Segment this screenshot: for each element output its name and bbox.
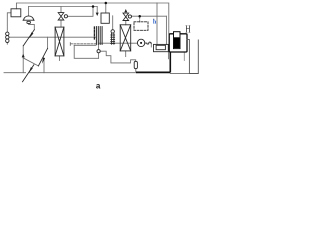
wire tank drain stub xyxy=(183,52,185,60)
wire stub from L1 junction down to box K2 xyxy=(105,3,107,13)
wire stub to bottom line xyxy=(43,59,45,73)
wire main line to burner xyxy=(9,36,96,38)
duct bracket xyxy=(69,43,71,46)
node junction on V2 wire xyxy=(138,15,141,18)
arrow at L2 end xyxy=(96,13,99,16)
wire S1 down to bottom line xyxy=(22,46,24,73)
wire X2 bottom stub xyxy=(125,51,127,57)
heat exchanger box X2 xyxy=(120,25,131,51)
bell dome xyxy=(24,16,34,20)
wire squiggle tail down xyxy=(150,43,152,47)
dashed sensor box xyxy=(134,22,148,31)
source circles chain xyxy=(6,32,9,35)
bell tab xyxy=(27,21,31,23)
valve V2 arrow xyxy=(124,9,127,12)
wire from main line down to S2 xyxy=(47,37,49,48)
wire big box right edge xyxy=(157,3,169,34)
burner jets xyxy=(95,27,97,45)
svg-text:a: a xyxy=(96,81,101,90)
svg-text:H: H xyxy=(185,25,190,36)
burner dashed vertical xyxy=(93,27,95,41)
switch S2 blade xyxy=(38,48,47,66)
wire L2 end arrow stem xyxy=(96,7,98,13)
wire igniter right jog to capsule xyxy=(100,51,136,63)
pedestal box outer xyxy=(154,44,169,51)
wire bottom line mid xyxy=(30,72,137,74)
wire duct corner down xyxy=(74,45,98,58)
wire capsule bottom stub xyxy=(135,69,137,72)
column H xyxy=(189,40,198,74)
wire diagonal to S2 xyxy=(23,58,38,66)
node junction on L2 xyxy=(92,5,95,8)
wire B1 left to source column xyxy=(7,13,11,32)
wire X1 bottom stub xyxy=(58,56,60,61)
valve V1 xyxy=(58,13,64,20)
tank xyxy=(169,34,187,52)
switch S1 blade xyxy=(23,30,34,46)
wire valve V2 bottom stub xyxy=(125,21,127,25)
duct solid top xyxy=(74,44,96,46)
controller box B1 xyxy=(11,9,21,17)
thick pipe bottom xyxy=(136,71,170,73)
wire line to pump xyxy=(99,42,137,44)
box K2 xyxy=(101,13,109,23)
label h icon xyxy=(153,19,157,26)
regulator ladder xyxy=(111,30,114,33)
wire top line L1 xyxy=(16,3,157,9)
wire bell tab to S1 xyxy=(29,24,35,30)
wire big box left edge xyxy=(156,3,158,44)
wire valve V2 to right xyxy=(132,15,167,17)
duct dashed line xyxy=(71,43,97,45)
wire bottom line left xyxy=(4,72,26,74)
pedestal box inner xyxy=(156,45,165,49)
wire line L2 xyxy=(29,6,98,8)
heat exchanger box X1 xyxy=(55,27,64,56)
bell base xyxy=(23,19,34,21)
wire igniter top stub xyxy=(98,45,100,50)
wire V2 line down to pedestal xyxy=(165,16,167,44)
pump circle xyxy=(137,39,144,46)
fuse capsule xyxy=(134,61,137,68)
wire squiggle xyxy=(145,42,152,44)
node junction on L1 xyxy=(105,2,108,5)
wire thin bottom right xyxy=(170,72,189,74)
heating element xyxy=(174,32,181,49)
wire bell top to L2 xyxy=(28,7,30,16)
dashed stub below junction xyxy=(139,18,141,23)
wire source tail xyxy=(6,43,8,44)
wire valve V1 top stub xyxy=(60,7,62,13)
valve V2 xyxy=(123,13,129,20)
switch S3 blade xyxy=(23,65,34,82)
igniter circle xyxy=(97,50,100,53)
wire pedestal drain stub xyxy=(167,52,169,59)
wire ladder stub xyxy=(112,16,114,30)
wire from L2 junction down-left to valve V1 xyxy=(68,7,94,17)
overflow pipe xyxy=(187,40,189,74)
wire valve V1 bottom stub xyxy=(60,20,62,27)
wire igniter bottom stub xyxy=(98,53,100,59)
flow arrow up on wire xyxy=(22,54,25,58)
